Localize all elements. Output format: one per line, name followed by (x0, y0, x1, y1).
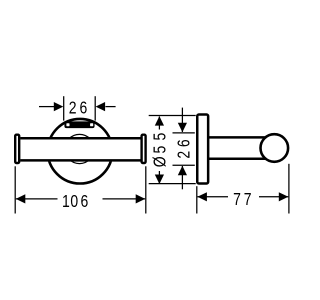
svg-text:7: 7 (233, 191, 241, 210)
svg-text:6: 6 (81, 193, 89, 212)
svg-text:2: 2 (69, 99, 77, 118)
svg-text:0: 0 (70, 193, 78, 212)
svg-text:7: 7 (244, 191, 252, 210)
svg-text:6: 6 (175, 139, 194, 147)
svg-text:1: 1 (62, 193, 70, 212)
svg-text:2: 2 (175, 151, 194, 159)
svg-text:5: 5 (151, 133, 170, 141)
svg-text:Ø: Ø (151, 156, 170, 167)
svg-text:6: 6 (80, 99, 88, 118)
svg-text:5: 5 (151, 146, 170, 154)
